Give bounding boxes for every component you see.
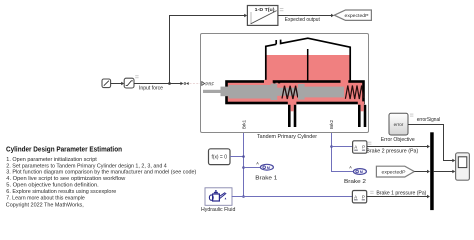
wire branch up to lookup table xyxy=(170,14,248,84)
errorSignal wire xyxy=(408,125,455,163)
source block Input (ramp icon) xyxy=(102,79,111,88)
svg-text:Error Objective: Error Objective xyxy=(381,137,415,143)
svg-text:7. Learn more about this examp: 7. Learn more about this example xyxy=(6,195,85,201)
svg-text:M: M xyxy=(360,169,363,174)
subsystem Tandem Primary Cylinder xyxy=(201,34,369,133)
svg-text:Brake 2: Brake 2 xyxy=(344,179,366,185)
line-end glyphs at PRF port xyxy=(180,82,200,85)
piston 1 xyxy=(229,84,301,100)
svg-text:expectedP: expectedP xyxy=(382,169,406,174)
svg-text:Input force: Input force xyxy=(139,85,163,91)
logging badge at lookup output xyxy=(280,8,284,11)
pressure sensor A P (brake 1) xyxy=(352,191,366,203)
svg-text:6. Explore simulation results: 6. Explore simulation results using ssce… xyxy=(6,189,116,195)
saturation block xyxy=(124,78,134,88)
spring 1 xyxy=(282,86,298,99)
junction dots Brk1 xyxy=(242,155,245,158)
port PRF glyph and label xyxy=(202,81,215,86)
svg-text:3. Plot function diagram compa: 3. Plot function diagram comparison by t… xyxy=(6,170,196,176)
logging badge above saturation xyxy=(135,75,138,78)
bottom wall gaps (outlet ports) xyxy=(288,101,364,105)
svg-text:Brake 1: Brake 1 xyxy=(255,176,277,182)
svg-text:1-D T(u): 1-D T(u) xyxy=(255,7,275,13)
wire lookup to goto xyxy=(278,14,334,17)
svg-text:5. Open objective function def: 5. Open objective function definition. xyxy=(6,183,99,189)
bottom physical wire to sensor xyxy=(232,196,353,198)
svg-text:A: A xyxy=(354,145,357,150)
svg-text:P: P xyxy=(362,145,365,150)
svg-text:A: A xyxy=(354,194,357,199)
svg-text:Brk1: Brk1 xyxy=(241,119,246,129)
logging badge sensor 1 xyxy=(368,142,371,145)
reservoir outline xyxy=(266,38,350,81)
svg-text:Copyright 2022 The MathWorks,: Copyright 2022 The MathWorks, xyxy=(6,202,84,208)
spring 2 xyxy=(345,86,363,100)
svg-text:4. Open live script to see opt: 4. Open live script to see optimization … xyxy=(6,176,125,182)
mux output wire to scope xyxy=(434,170,456,173)
mux xyxy=(430,132,434,210)
svg-text:f(x) = 0: f(x) = 0 xyxy=(211,155,227,161)
svg-text:PRF: PRF xyxy=(205,81,214,86)
svg-text:Cylinder Design Parameter Esti: Cylinder Design Parameter Estimation xyxy=(6,145,122,154)
svg-text:error: error xyxy=(394,122,404,127)
wire source to saturation xyxy=(111,82,125,85)
wire to Brake 1 xyxy=(244,167,261,169)
cylinder body xyxy=(227,82,364,104)
svg-text:expectedP: expectedP xyxy=(345,13,369,18)
scope block xyxy=(456,153,470,180)
logging badge sensor 2 xyxy=(370,191,373,194)
wire saturation to PRF with branch xyxy=(134,83,181,85)
solver configuration f(x)=0 xyxy=(209,149,231,165)
Brake 2 block (oval) xyxy=(353,169,366,175)
signal wire sensor2 to mux xyxy=(367,195,430,198)
1-D lookup table block xyxy=(247,6,278,26)
svg-text:M: M xyxy=(267,165,270,170)
top wall gaps (compensation ports) xyxy=(264,80,348,84)
svg-text:Tandem Primary Cylinder: Tandem Primary Cylinder xyxy=(257,134,317,140)
outlet pipes brake 1 xyxy=(288,105,296,127)
svg-text:errorSignal: errorSignal xyxy=(417,117,441,123)
svg-text:Brake 2 pressure (Pa): Brake 2 pressure (Pa) xyxy=(366,148,418,154)
goto tag expectedP xyxy=(334,10,371,20)
error objective block xyxy=(389,113,408,135)
svg-text:1. Open parameter initializati: 1. Open parameter initialization script xyxy=(6,157,97,163)
junction dot Brk2 xyxy=(330,145,333,148)
svg-text:A: A xyxy=(349,165,352,169)
Brake 1 block (oval) xyxy=(260,164,273,170)
cylinder icon: reservoir fluid xyxy=(267,55,351,81)
Brk1 vertical net xyxy=(243,133,245,197)
physical wire f(x)=0 to Brk1 net xyxy=(230,156,244,158)
outlet pipes brake 2 xyxy=(358,105,366,127)
signal wire from tag to mux xyxy=(414,170,430,173)
pushrod xyxy=(203,87,229,97)
pressure sensor A P (brake 2) xyxy=(353,141,367,153)
svg-text:A: A xyxy=(256,162,259,166)
svg-text:Brk2: Brk2 xyxy=(329,119,334,129)
node junction input force xyxy=(168,82,171,85)
svg-text:2. Set parameters to Tandem Pr: 2. Set parameters to Tandem Primary Cyli… xyxy=(6,163,167,169)
signal wire sensor1 to mux xyxy=(367,145,430,148)
svg-text:P: P xyxy=(362,194,365,199)
logging badge error xyxy=(410,114,413,117)
svg-text:Hydraulic Fluid: Hydraulic Fluid xyxy=(201,207,235,213)
annotation list xyxy=(6,157,196,201)
svg-text:Brake 1 pressure (Pa): Brake 1 pressure (Pa) xyxy=(376,190,426,196)
wire to pressure sensor 1 xyxy=(332,146,353,148)
reservoir divider xyxy=(307,49,309,81)
Brk2 vertical net xyxy=(332,133,354,172)
svg-text:Expected output: Expected output xyxy=(285,17,321,23)
from tag expectedP xyxy=(376,166,414,177)
piston 2 xyxy=(298,84,344,100)
Hydraulic Fluid block xyxy=(205,188,232,206)
